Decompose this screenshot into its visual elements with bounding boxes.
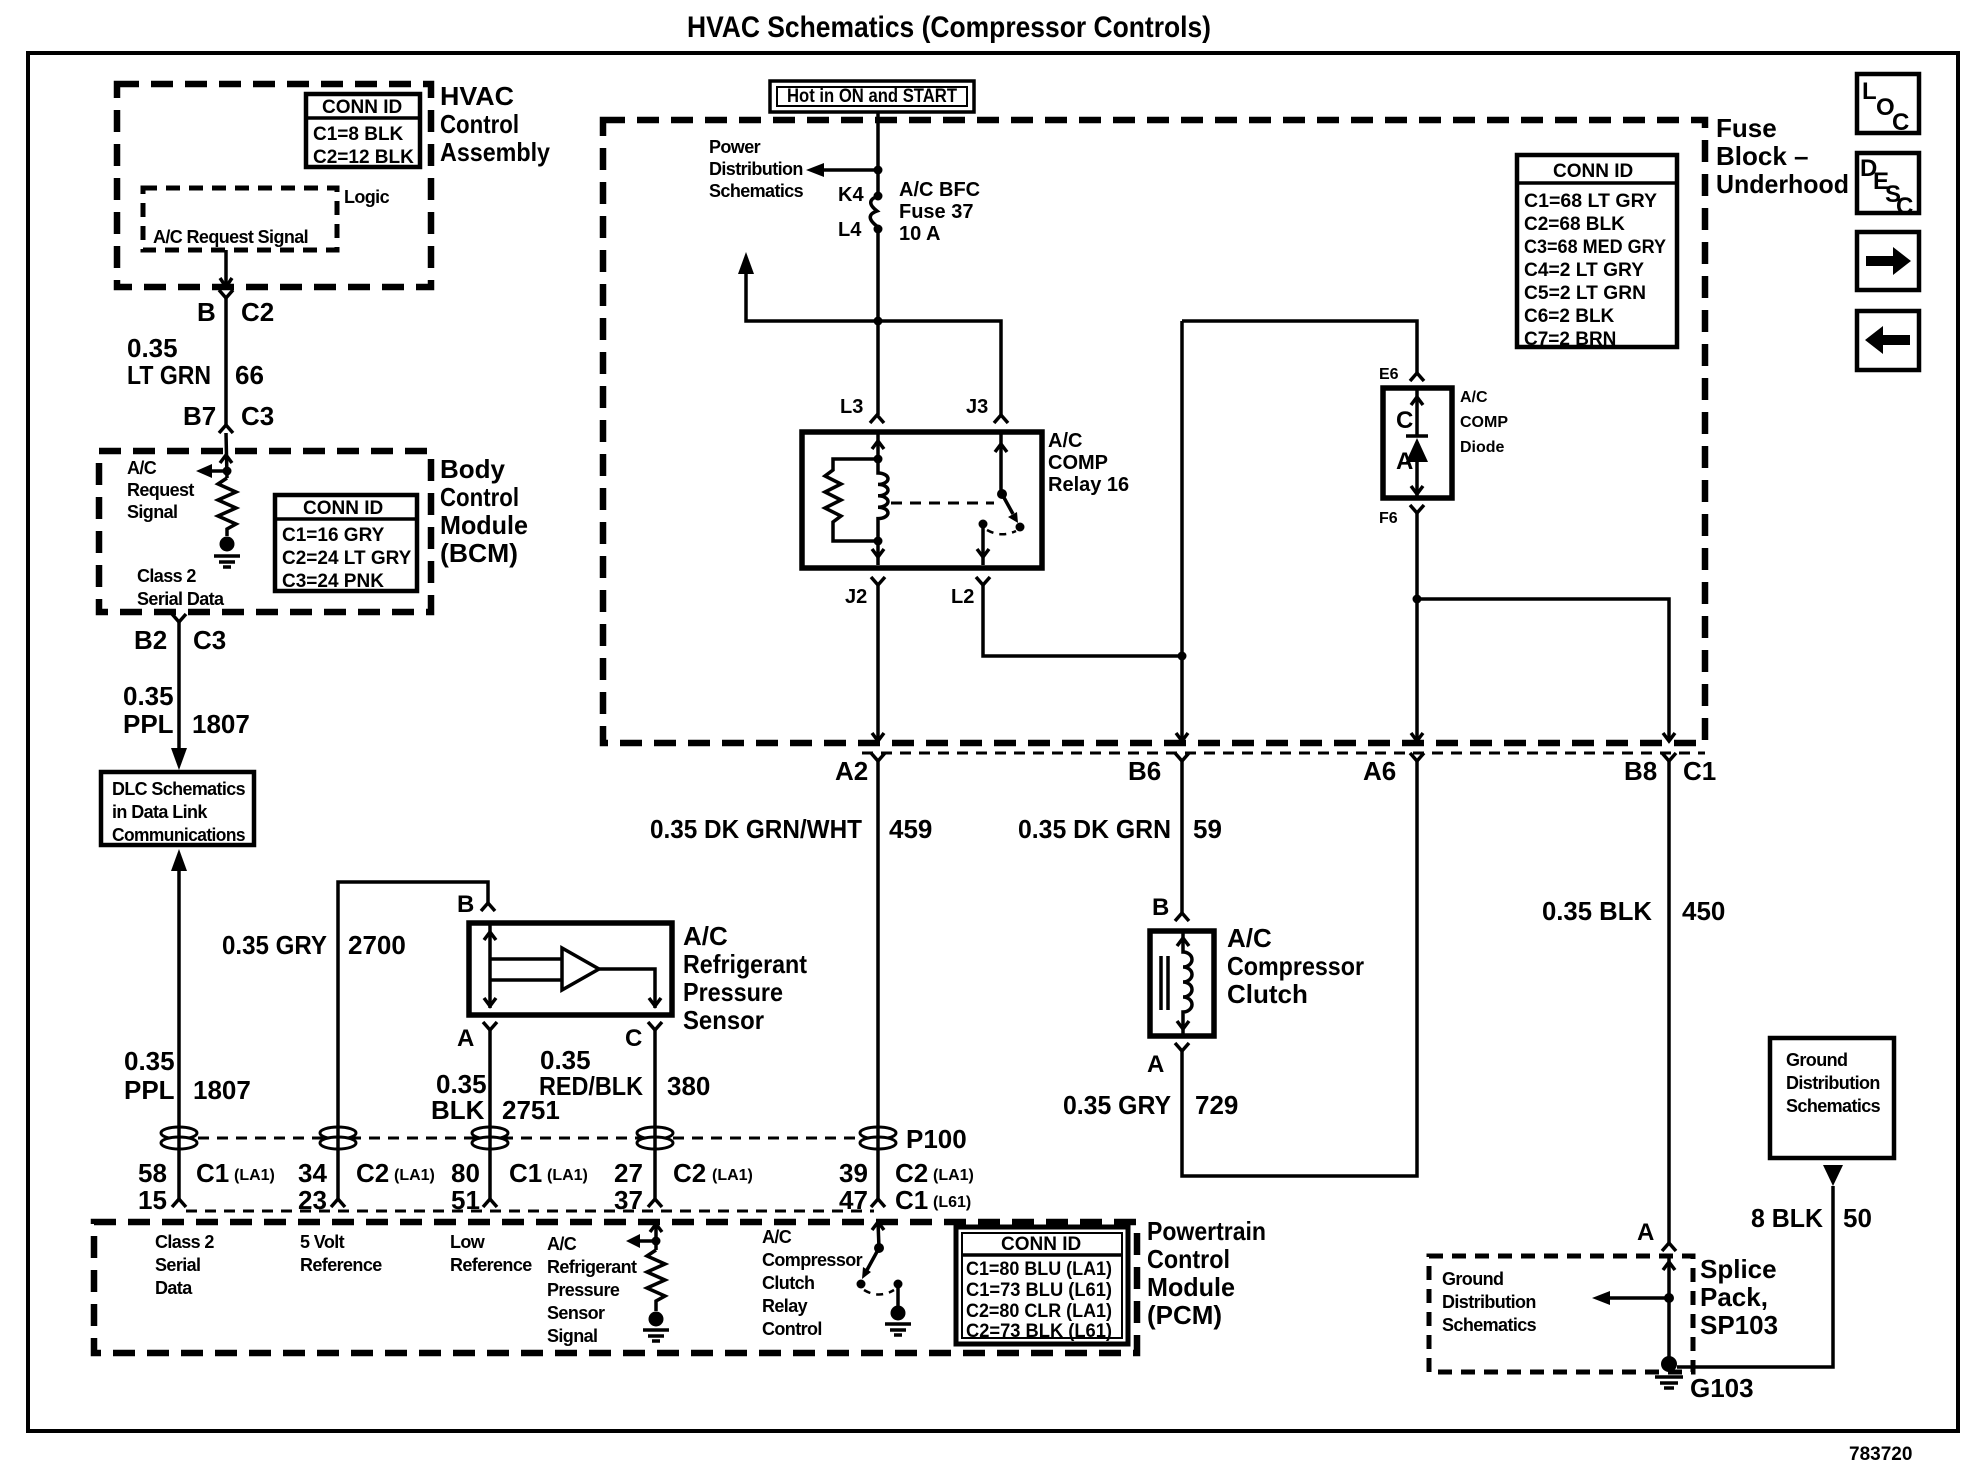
wire B6 to clutch [1180,761,1184,913]
svg-text:10 A: 10 A [899,223,941,245]
svg-text:SP103: SP103 [1700,1310,1778,1340]
svg-text:0.35 BLK: 0.35 BLK [1542,896,1652,926]
svg-text:K4: K4 [838,184,864,206]
svg-text:Power: Power [709,137,761,157]
svg-text:Request: Request [127,480,194,500]
svg-text:G103: G103 [1690,1373,1754,1403]
svg-text:J2: J2 [845,586,867,608]
svg-text:B: B [1152,894,1169,921]
Fuse Block Underhood box [603,120,1705,743]
wire sensor C to PCM [653,1030,657,1199]
arrow into DLC box [171,748,187,770]
connector sensor C [648,1022,662,1030]
svg-text:450: 450 [1682,896,1725,926]
connector clutch A [1175,1043,1189,1051]
svg-text:0.35 GRY: 0.35 GRY [222,930,327,960]
diode internal [1406,388,1428,498]
svg-text:(L61): (L61) [933,1194,971,1211]
svg-text:Signal: Signal [547,1326,597,1346]
svg-text:Pressure: Pressure [547,1280,620,1300]
wire B8 to splice A [1667,761,1671,1243]
svg-text:59: 59 [1193,814,1222,844]
sensor label [683,921,807,1035]
svg-text:C1: C1 [1683,756,1716,786]
svg-text:HVAC Schematics (Compressor Co: HVAC Schematics (Compressor Controls) [687,11,1211,44]
clutch coil [1177,931,1192,1036]
svg-text:Relay 16: Relay 16 [1048,474,1129,496]
svg-text:C3=24 PNK: C3=24 PNK [282,571,384,592]
svg-text:C3: C3 [193,625,226,655]
wire to B8 [1417,599,1675,741]
fuse terminal L4 [874,225,883,234]
svg-text:Distribution: Distribution [1786,1073,1880,1093]
arrow up to DLC box [171,849,187,871]
svg-text:B7: B7 [183,401,216,431]
connector C2 (LA1) col5 [895,1158,974,1188]
junction A/C request branch [223,467,232,476]
svg-text:Fuse 37: Fuse 37 [899,201,973,223]
svg-text:L3: L3 [840,396,863,418]
svg-text:A6: A6 [1363,756,1396,786]
connector L3 [870,415,884,423]
svg-text:34: 34 [298,1158,327,1188]
svg-text:Block –: Block – [1716,141,1809,171]
svg-text:C1: C1 [509,1158,542,1188]
connector C2 (LA1) col2 [356,1158,435,1188]
svg-text:C1: C1 [196,1158,229,1188]
svg-text:Module: Module [1147,1272,1235,1302]
svg-text:Fuse: Fuse [1716,113,1777,143]
svg-text:A/C: A/C [1048,430,1082,452]
relay coil-switch link [891,502,994,505]
svg-text:Control: Control [440,482,519,512]
connector table CONN ID (fuse block) [1517,155,1677,350]
A/C Refrigerant Pressure Sensor box [469,923,672,1015]
wire label 0.35 DK GRN/WHT 459 [650,814,932,844]
relay L2 leg [977,524,989,565]
svg-text:C2=80 CLR (LA1): C2=80 CLR (LA1) [966,1301,1112,1322]
svg-text:C2=24 LT GRY: C2=24 LT GRY [282,548,412,569]
svg-text:Distribution: Distribution [709,159,803,179]
LOC icon [1857,74,1919,136]
connector B7/C3 [219,425,233,433]
svg-text:Schematics: Schematics [1786,1096,1881,1116]
svg-text:COMP: COMP [1048,452,1108,474]
svg-text:Assembly: Assembly [440,137,550,167]
connector row dashed line (fuse block bottom) [862,752,1705,755]
svg-text:Clutch: Clutch [1227,979,1308,1009]
svg-text:A: A [1147,1051,1164,1078]
connector table CONN ID (HVAC) [306,94,420,168]
svg-text:COMP: COMP [1460,414,1508,431]
svg-text:Signal: Signal [127,502,177,522]
connector row dashed line (PCM top) [186,1210,874,1213]
resistor (BCM input) [218,478,236,536]
svg-text:C2: C2 [673,1158,706,1188]
connector C1 (LA1) col1 [196,1158,275,1188]
wire sensor A to PCM [488,1030,492,1199]
svg-text:A: A [1396,448,1413,475]
svg-text:A/C BFC: A/C BFC [899,179,980,201]
svg-text:A/C: A/C [762,1227,792,1247]
ground G103 dot [1661,1356,1677,1372]
svg-text:(LA1): (LA1) [712,1167,753,1184]
5 Volt Reference label [300,1232,382,1275]
PCM pressure signal input wire [650,1222,662,1250]
junction diode to B8 [1413,595,1422,604]
svg-text:(LA1): (LA1) [933,1167,974,1184]
connector table CONN ID (BCM) [275,495,417,592]
svg-text:Module: Module [440,510,528,540]
relay label [1048,430,1129,496]
Logic box [143,187,390,250]
relay coil top junction [874,455,883,464]
connector pin chevron 23 [331,1199,345,1207]
svg-text:Serial: Serial [155,1255,200,1275]
svg-text:Sensor: Sensor [547,1303,605,1323]
svg-text:C1=80 BLU (LA1): C1=80 BLU (LA1) [966,1259,1112,1280]
wire L2 to B6 bus [983,585,1182,656]
wire B6 riser [1176,321,1188,741]
svg-text:A/C: A/C [1227,923,1272,953]
svg-text:C2=68 BLK: C2=68 BLK [1524,214,1625,235]
svg-text:Low: Low [450,1232,486,1252]
previous page icon [1857,311,1919,370]
PCM label [1147,1216,1266,1330]
connector clutch B [1175,913,1189,921]
svg-text:CONN ID: CONN ID [1553,161,1633,182]
connector row dashed line (P100) [179,1137,878,1140]
wire hot feed [876,112,880,194]
splice internal wire [1663,1256,1675,1363]
relay switch L2 contact dot [979,520,988,529]
svg-text:39: 39 [839,1158,868,1188]
Splice Pack label [1700,1254,1778,1340]
wire label 0.35 BLK 2751 [431,1069,560,1125]
connector J2 [871,577,885,585]
BCM label [440,454,528,568]
svg-text:Reference: Reference [300,1255,382,1275]
svg-text:0.35: 0.35 [127,333,178,363]
connector J3 [994,415,1008,423]
svg-text:BLK: BLK [431,1095,485,1125]
wire fuse to bus junction [876,229,880,321]
relay switch pivot dot [997,489,1007,499]
svg-text:0.35 DK GRN: 0.35 DK GRN [1018,814,1171,844]
svg-text:C: C [1396,407,1413,434]
svg-text:0.35: 0.35 [124,1046,175,1076]
svg-text:A/C: A/C [547,1234,577,1254]
fuse element A/C BFC Fuse 37 [870,196,878,227]
Class 2 Serial Data label (PCM) [155,1232,214,1298]
Ground Distribution Schematics box [1770,1038,1894,1158]
svg-text:B: B [197,297,216,327]
connector C1 (L61) col5 [895,1185,971,1215]
Ground Distribution Schematics label (splice) [1442,1269,1537,1335]
svg-text:0.35: 0.35 [123,681,174,711]
svg-text:C: C [625,1025,642,1052]
svg-text:Body: Body [440,454,506,484]
PCM clutch relay control switch input [872,1222,884,1248]
svg-text:HVAC: HVAC [440,81,514,111]
wire L3 drop [876,321,880,415]
svg-text:380: 380 [667,1071,710,1101]
clutch label [1227,923,1364,1009]
svg-text:A/C: A/C [127,458,157,478]
resistor (PCM pressure signal) [647,1250,665,1311]
svg-text:C: C [1896,193,1913,220]
svg-text:Clutch: Clutch [762,1273,814,1293]
svg-text:729: 729 [1195,1090,1238,1120]
svg-text:C1=8 BLK: C1=8 BLK [313,124,404,145]
switch travel arc (PCM) [864,1290,894,1295]
wire logic output to B/C2 with arrow [220,250,232,287]
svg-text:Ground: Ground [1786,1050,1847,1070]
ground symbol (PCM switch) [885,1324,911,1335]
wire 8 BLK 50 [1677,1186,1833,1367]
ground symbol (BCM) [214,556,240,567]
inline connector grommet 27 [637,1127,673,1149]
A/C Compressor Clutch box [1150,931,1214,1036]
svg-text:C5=2 LT GRN: C5=2 LT GRN [1524,283,1646,304]
wire label 0.35 BLK 450 [1542,896,1725,926]
junction L2/B6 [1178,652,1187,661]
wire 1807 PPL lower [177,871,181,1199]
svg-text:A2: A2 [835,756,868,786]
svg-text:B2: B2 [134,625,167,655]
connector B/C2 [219,290,233,298]
Hot in ON and START box [770,81,974,112]
sensor internal amplifier [484,923,661,1008]
connector A2 [871,753,885,761]
svg-text:Pressure: Pressure [683,977,783,1007]
wire 2700 GRY top run [338,882,488,1199]
svg-text:C1=73 BLU (L61): C1=73 BLU (L61) [966,1280,1112,1301]
Low Reference label [450,1232,532,1275]
Fuse Block Underhood label [1716,113,1849,199]
switch blade (PCM) [862,1248,879,1279]
svg-text:Control: Control [1147,1244,1230,1274]
svg-text:A/C: A/C [683,921,728,951]
svg-text:5 Volt: 5 Volt [300,1232,345,1252]
svg-text:LT GRN: LT GRN [127,360,211,390]
svg-text:E6: E6 [1379,366,1399,383]
svg-text:C2: C2 [895,1158,928,1188]
A/C BFC Fuse 37 10 A label [899,179,980,245]
svg-text:C2: C2 [241,297,274,327]
svg-text:PPL: PPL [123,709,174,739]
wire J2 to A2 [872,585,884,741]
svg-text:0.35 DK GRN/WHT: 0.35 DK GRN/WHT [650,814,862,844]
svg-text:CONN ID: CONN ID [322,97,402,118]
Class 2 Serial Data label (BCM) [137,566,225,609]
connector B6 [1175,753,1189,761]
connector pin chevron 15 [172,1199,186,1207]
wire label 8 BLK 50 [1751,1203,1872,1233]
ground dot (PCM resistor) [649,1312,664,1327]
power distribution branch arrow [806,163,878,177]
relay switch travel arc [987,530,1016,534]
svg-text:Sensor: Sensor [683,1005,764,1035]
svg-text:L: L [1862,78,1877,105]
A/C request branch arrow [196,464,227,478]
relay coil branch [872,432,888,565]
relay switch blade contact dot [1016,523,1025,532]
svg-text:783720: 783720 [1849,1444,1912,1465]
wire F6 to A6 [1411,513,1423,741]
wire label 0.35 GRY 729 [1063,1090,1238,1120]
wire 1807 PPL upper [177,622,181,750]
svg-text:(LA1): (LA1) [234,1167,275,1184]
svg-text:Logic: Logic [344,187,390,207]
connector E6 [1410,373,1424,381]
wire into BCM with arrow [220,433,232,478]
svg-text:(BCM): (BCM) [440,538,518,568]
svg-text:C1: C1 [895,1185,928,1215]
svg-text:Distribution: Distribution [1442,1292,1536,1312]
svg-text:C2=12 BLK: C2=12 BLK [313,147,414,168]
svg-text:L2: L2 [951,586,974,608]
A/C Compressor Clutch Relay Control label [762,1227,863,1339]
HVAC Control Assembly box [117,84,431,287]
svg-text:Diode: Diode [1460,439,1505,456]
wire label 0.35 DK GRN 59 [1018,814,1222,844]
A/C Request Signal label (BCM) [127,458,194,522]
svg-text:C: C [1892,109,1909,136]
pressure signal branch arrow [626,1234,656,1248]
svg-text:C7=2 BRN: C7=2 BRN [1524,329,1616,350]
svg-text:Hot in ON and START: Hot in ON and START [787,86,957,107]
bus wire with up arrow to J3 [738,252,1001,415]
wire label 0.35 RED/BLK 380 [539,1045,710,1101]
svg-text:Relay: Relay [762,1296,808,1316]
svg-text:Schematics: Schematics [709,181,804,201]
relay coil bottom junction [874,537,883,546]
svg-text:Reference: Reference [450,1255,532,1275]
inline connector grommet 58 [161,1127,197,1149]
svg-text:(PCM): (PCM) [1147,1300,1222,1330]
relay A/C COMP Relay 16 box [802,432,1042,568]
svg-text:50: 50 [1843,1203,1872,1233]
svg-text:80: 80 [451,1158,480,1188]
svg-text:A/C: A/C [1460,389,1488,406]
splice junction dot [1664,1293,1674,1303]
svg-text:C1=16 GRY: C1=16 GRY [282,525,385,546]
connector B2/C3 [172,614,186,622]
next page icon [1857,232,1919,290]
svg-text:Refrigerant: Refrigerant [683,949,807,979]
inline connector grommet 34 [320,1127,356,1149]
svg-text:Control: Control [762,1319,822,1339]
ground symbol G103 [1655,1377,1683,1388]
svg-text:B: B [457,891,474,918]
connector pin chevron 51 [483,1199,497,1207]
svg-text:Serial Data: Serial Data [137,589,225,609]
svg-text:0.35 GRY: 0.35 GRY [1063,1090,1171,1120]
diode label [1460,389,1508,456]
svg-text:C2=73 BLK (L61): C2=73 BLK (L61) [966,1321,1112,1342]
svg-text:459: 459 [889,814,932,844]
svg-text:8 BLK: 8 BLK [1751,1203,1823,1233]
Body Control Module box [99,451,431,612]
svg-text:Class 2: Class 2 [137,566,196,586]
connector B8 [1662,753,1676,761]
svg-text:CONN ID: CONN ID [1001,1234,1081,1255]
wire 66 LT GRN [224,298,228,425]
svg-text:27: 27 [614,1158,643,1188]
clutch core bars [1161,956,1168,1010]
svg-text:1807: 1807 [192,709,250,739]
connector sensor A [483,1022,497,1030]
connector A6 [1410,753,1424,761]
svg-text:Ground: Ground [1442,1269,1503,1289]
svg-text:1807: 1807 [193,1075,251,1105]
svg-text:C1=68 LT GRY: C1=68 LT GRY [1524,191,1657,212]
switch alternate contact stub [894,1280,903,1308]
arrow from GDS box down [1823,1165,1843,1186]
DESC icon [1857,153,1919,220]
svg-text:58: 58 [138,1158,167,1188]
svg-text:CONN ID: CONN ID [303,498,383,519]
svg-text:2700: 2700 [348,930,406,960]
Powertrain Control Module box [94,1222,1137,1353]
svg-text:Compressor: Compressor [1227,951,1364,981]
connector F6 [1410,505,1424,513]
svg-text:Pack,: Pack, [1700,1282,1768,1312]
wire label 0.35 PPL 1807 (upper) [123,681,250,739]
connector sensor B [481,903,495,911]
svg-text:F6: F6 [1379,510,1398,527]
connector L2 [976,577,990,585]
svg-text:Compressor: Compressor [762,1250,863,1270]
ground dot (BCM) [220,537,235,552]
svg-text:B6: B6 [1128,756,1161,786]
svg-text:A: A [457,1025,474,1052]
svg-text:DLC Schematics: DLC Schematics [112,779,246,799]
svg-text:L4: L4 [838,219,862,241]
svg-text:in Data Link: in Data Link [112,802,208,822]
svg-text:Schematics: Schematics [1442,1315,1537,1335]
svg-text:PPL: PPL [124,1075,175,1105]
svg-text:A: A [1637,1219,1654,1246]
svg-text:Powertrain: Powertrain [1147,1216,1266,1246]
relay switch branch [995,432,1007,494]
A/C Refrigerant Pressure Sensor Signal label [547,1234,637,1346]
svg-text:B8: B8 [1624,756,1657,786]
svg-text:Splice: Splice [1700,1254,1777,1284]
svg-text:(LA1): (LA1) [547,1167,588,1184]
svg-text:(LA1): (LA1) [394,1167,435,1184]
svg-text:Data: Data [155,1278,193,1298]
connector C2 (LA1) col4 [673,1158,753,1188]
svg-text:Underhood: Underhood [1716,169,1849,199]
svg-text:J3: J3 [966,396,988,418]
DLC Schematics box [101,772,254,845]
svg-text:A/C Request Signal: A/C Request Signal [153,227,308,247]
inline connector grommet P100 [860,1127,896,1149]
connector table CONN ID (PCM) [956,1227,1128,1344]
svg-text:RED/BLK: RED/BLK [539,1071,643,1101]
wire label 0.35 PPL 1807 (lower) [124,1046,251,1105]
ground dot (PCM switch) [891,1306,906,1321]
junction at bus [874,317,883,326]
connector pin chevron 47 [871,1199,885,1207]
wire clutch A loop to A6 [1182,761,1417,1176]
svg-text:C3=68 MED GRY: C3=68 MED GRY [1524,237,1666,258]
svg-text:Refrigerant: Refrigerant [547,1257,637,1277]
svg-text:P100: P100 [906,1124,967,1154]
svg-text:66: 66 [235,360,264,390]
